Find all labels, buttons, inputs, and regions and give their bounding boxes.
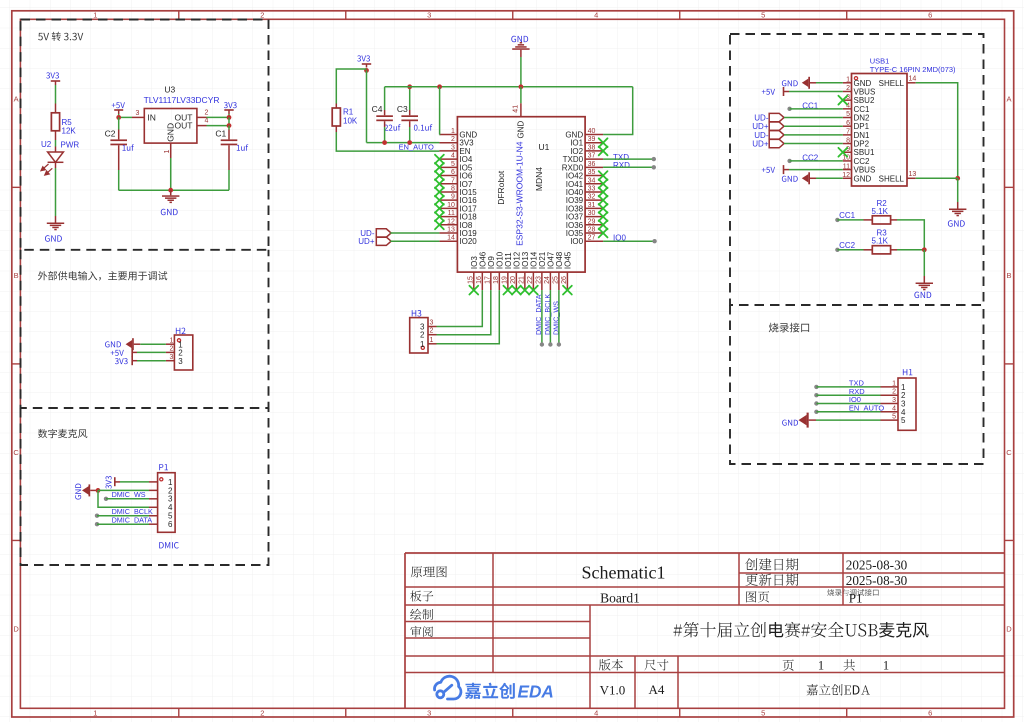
svg-text:11: 11 <box>843 163 850 170</box>
LED U2 designator <box>41 140 52 149</box>
U1 pin 41 (GND top) <box>513 103 526 138</box>
no-connect X USB1 pin9 (SBU1) <box>838 148 847 157</box>
U1 pin 24 (IO47) <box>544 251 556 290</box>
dashed box: programming header section <box>730 305 984 464</box>
U1 pin 26 (IO45) <box>561 251 573 290</box>
capacitor C3 <box>397 104 432 143</box>
wire SHELL14 to GND <box>916 83 958 178</box>
no-connect X U1 pin 38 <box>599 147 608 156</box>
svg-text:6: 6 <box>451 169 455 176</box>
svg-text:DP1: DP1 <box>854 122 870 131</box>
svg-text:4: 4 <box>451 153 455 160</box>
svg-text:20: 20 <box>510 276 517 284</box>
svg-text:30: 30 <box>588 210 596 217</box>
no-connect X U1 pin 33 <box>599 188 608 197</box>
svg-text:3: 3 <box>451 144 455 151</box>
node P1 GND junction <box>96 488 101 493</box>
U1 pin 15 (IO3) <box>467 256 479 290</box>
H3 pin 3 <box>420 320 436 332</box>
U1 pin 13 (IO19) <box>439 227 477 239</box>
port UD- (USB1 pin5) <box>754 113 784 122</box>
svg-text:13: 13 <box>447 227 455 234</box>
U1 pin 6 (IO6) <box>439 169 472 181</box>
no-connect X U1 pin 32 <box>599 196 608 205</box>
net label DMIC_BCLK (U1) <box>543 294 552 335</box>
wire 3V3 rail to U1 pin2 <box>367 142 440 144</box>
U1 pin 28 (IO35) <box>566 227 603 239</box>
svg-text:IO20: IO20 <box>459 237 477 246</box>
connector P1 <box>149 473 175 533</box>
net label CC1 (R2) <box>839 211 856 220</box>
net label IO0 (H1) <box>849 395 861 404</box>
power port 3V3 (U3 output) <box>224 102 237 114</box>
U1 pin 18 (IO10) <box>493 251 505 290</box>
svg-text:P1: P1 <box>849 590 863 605</box>
svg-text:28: 28 <box>588 227 596 234</box>
resistor R5 <box>51 104 76 141</box>
svg-text:A: A <box>1006 95 1011 104</box>
svg-text:SBU1: SBU1 <box>854 148 875 157</box>
svg-text:3: 3 <box>170 354 174 361</box>
no-connect X U1 pin 35 <box>599 171 608 180</box>
svg-text:6: 6 <box>928 708 932 717</box>
svg-text:SHELL: SHELL <box>879 174 905 183</box>
node GND rail branch to pin1 <box>437 84 442 89</box>
ground flag (H2 pin1) <box>105 338 140 350</box>
title block company 嘉立创EDA <box>807 684 870 695</box>
svg-text:6: 6 <box>928 11 932 20</box>
U1 pin 34 (IO41) <box>566 177 603 189</box>
U1 pin 20 (IO12) <box>510 251 522 290</box>
resistor R2 <box>864 199 898 224</box>
USB1 pin 5 (DN2) <box>843 111 870 122</box>
U3 pin 3 (IN) <box>132 110 144 117</box>
svg-text:1: 1 <box>451 128 455 135</box>
wire R3 to junction <box>897 249 924 251</box>
wire SHELL13 to GND <box>916 177 958 179</box>
wire C3 top to GND rail <box>409 87 411 110</box>
U1 pin 33 (IO40) <box>566 185 603 197</box>
connector USB1 designator <box>870 57 890 66</box>
U1 pin 38 (IO2) <box>570 144 603 156</box>
regulator U3 designator <box>164 85 175 95</box>
wire GND rail to U1 pin40 <box>603 87 633 135</box>
wire LED to GND <box>55 168 57 216</box>
capacitor C1 <box>215 126 248 191</box>
svg-text:19: 19 <box>501 276 508 284</box>
net label CC1 (USB1) <box>802 101 819 110</box>
title block project title <box>673 622 928 638</box>
U1 pin 1 (GND) <box>439 128 477 140</box>
svg-text:C1: C1 <box>215 129 226 139</box>
no-connect X U1 pin 31 <box>599 204 608 213</box>
svg-text:2025-08-30: 2025-08-30 <box>846 573 908 588</box>
wire GND to H2.1 <box>140 343 166 345</box>
no-connect X U1 pin 19 <box>503 286 512 295</box>
svg-text:TLV1117LV33DCYR: TLV1117LV33DCYR <box>144 95 220 105</box>
title block version V1.0 <box>600 683 626 698</box>
wire junction to ground <box>923 250 925 276</box>
svg-text:B: B <box>14 271 19 280</box>
dashed box: external power input section <box>21 250 269 408</box>
svg-text:EN_AUTO: EN_AUTO <box>399 143 434 152</box>
net label DMIC_WS (P1) <box>112 490 146 499</box>
wire CC1 <box>787 107 842 111</box>
wire UD- to U1.13 <box>390 232 439 234</box>
wire U1.16 to H3.3 <box>437 290 483 326</box>
svg-text:U3: U3 <box>164 85 175 95</box>
svg-text:5: 5 <box>761 708 765 717</box>
svg-text:5: 5 <box>892 414 896 421</box>
connector H2 <box>174 335 192 370</box>
svg-text:35: 35 <box>588 169 596 176</box>
wire C4 top to GND rail <box>384 87 386 110</box>
no-connect X U1 pin 39 <box>599 138 608 147</box>
wire +5V to U3.IN <box>119 114 132 117</box>
U1 pin 16 (IO46) <box>476 251 488 290</box>
USB1 pin 12 (GND) <box>842 172 871 183</box>
ground (top center) <box>511 36 529 57</box>
wire TXD to H1.1 <box>814 385 880 389</box>
ground flag (USB1 pin12) <box>782 172 816 184</box>
no-connect X U1 pin 20 <box>512 286 521 295</box>
title block label 绘制 <box>410 609 433 620</box>
svg-text:CC1: CC1 <box>839 211 856 220</box>
svg-text:GND: GND <box>517 120 526 138</box>
wire GND to USB1.1 <box>816 82 843 84</box>
section label burn interface <box>769 323 809 333</box>
wire U3.OUT2 to 3V3 <box>207 114 230 117</box>
H3 pin 2 <box>420 328 436 340</box>
svg-text:ESP32-S3-WROOM-1U-N4: ESP32-S3-WROOM-1U-N4 <box>514 141 524 246</box>
dashed box: digital microphone section <box>21 408 269 565</box>
svg-text:16: 16 <box>476 276 483 284</box>
svg-text:V1.0: V1.0 <box>600 683 626 698</box>
wire CC2 <box>787 159 842 163</box>
ground flag (USB1 pin1) <box>782 77 816 89</box>
no-connect X U1 pin 4 <box>435 155 444 164</box>
node 3V3/pin2 junction <box>227 115 232 120</box>
svg-text:C2: C2 <box>105 129 116 139</box>
net label CC2 (R3) <box>839 241 856 250</box>
title block label 原理图 <box>411 566 447 577</box>
svg-text:39: 39 <box>588 136 596 143</box>
title block label 版本 <box>599 659 623 670</box>
node C3/3V3 junction <box>407 140 412 145</box>
svg-text:8: 8 <box>846 137 850 144</box>
wire DMIC_DATA <box>95 522 149 526</box>
wire UD+ to USB1.8 <box>784 143 843 145</box>
USB1 pin 7 (DN1) <box>843 129 870 140</box>
resistor R3 <box>864 228 898 254</box>
title block label 图页 <box>746 591 769 602</box>
U1 pin 2 (3V3) <box>439 136 474 148</box>
ground (USB shell) <box>948 202 967 227</box>
USB1 pin 8 (DP2) <box>843 137 870 148</box>
wire DMIC_WS (U1.25) <box>557 290 561 347</box>
ground (below U3) <box>161 190 180 215</box>
no-connect X U1 pin 12 <box>435 220 444 229</box>
svg-text:DMIC_WS: DMIC_WS <box>112 490 146 499</box>
svg-text:2: 2 <box>260 11 264 20</box>
U3 pin 2 (OUT) <box>197 110 209 118</box>
power port +5V (H2 pin2) <box>111 348 137 357</box>
U1 pin 11 (IO18) <box>439 210 477 222</box>
svg-text:10K: 10K <box>343 117 358 126</box>
wire GND rail <box>385 86 633 88</box>
power port 3V3 (EN pullup) <box>357 55 371 67</box>
resistor R1 <box>332 104 358 133</box>
ground (CC pulldowns) <box>914 276 933 298</box>
port UD- (USB1 pin7) <box>754 131 784 140</box>
U1 label MDN4 <box>534 167 544 191</box>
svg-text:C4: C4 <box>372 104 383 114</box>
svg-text:EDA: EDA <box>518 681 554 701</box>
U1 pin 8 (IO15) <box>439 185 477 197</box>
svg-text:23: 23 <box>535 276 542 284</box>
wire GND symbol to rail <box>520 57 522 87</box>
wire U3.OUT4 to 3V3 <box>207 117 230 125</box>
wire RXD <box>603 165 656 169</box>
no-connect X U1 pin 7 <box>435 179 444 188</box>
title block value Board1 <box>600 591 640 606</box>
svg-text:5: 5 <box>451 161 455 168</box>
wire C2 bottom rail <box>119 189 229 191</box>
power port 3V3 (top of R5) <box>46 72 60 85</box>
svg-text:14: 14 <box>909 76 917 83</box>
power port +5V (USB1 pin11) <box>762 165 789 174</box>
wire CC2 to R3 <box>835 248 863 252</box>
no-connect X U1 pin 30 <box>599 212 608 221</box>
U1 pin 36 (RXD0) <box>562 161 603 173</box>
power port 3V3 (P1 pin1) <box>106 476 120 489</box>
title block label 创建日期 <box>745 558 798 570</box>
svg-text:38: 38 <box>588 144 596 151</box>
port UD+ (U1 pin14) <box>358 237 391 246</box>
USB1 pin 3 (SBU2) <box>843 94 875 105</box>
H2 pin 3 <box>166 354 183 366</box>
U1 pin 21 (IO13) <box>518 251 530 290</box>
U1 label DFRobot <box>496 170 506 205</box>
svg-text:VBUS: VBUS <box>854 87 876 96</box>
connector P1 designator <box>159 464 168 470</box>
P1 label DMIC <box>159 542 178 548</box>
wire +5V to USB1.11 <box>789 169 843 171</box>
no-connect X U1 pin 11 <box>435 212 444 221</box>
svg-text:1: 1 <box>170 337 174 344</box>
svg-text:2025-08-30: 2025-08-30 <box>846 557 908 572</box>
wire GND rail to U1 pin41 <box>520 87 522 103</box>
svg-text:DP2: DP2 <box>854 140 870 149</box>
wire CC1 to R2 <box>835 218 863 222</box>
no-connect X U1 pin 28 <box>599 229 608 238</box>
wire R2 to junction <box>897 220 924 250</box>
op-amp U3 body <box>144 109 197 144</box>
wire GND to P1.4 <box>98 490 149 507</box>
svg-text:14: 14 <box>447 235 455 242</box>
H2 pin 1 <box>166 337 183 349</box>
net label DMIC_DATA (P1) <box>112 516 153 525</box>
svg-text:34: 34 <box>588 177 596 184</box>
svg-text:13: 13 <box>909 171 917 178</box>
USB1 pin 11 (VBUS) <box>843 163 876 174</box>
U1 pin 7 (IO7) <box>439 177 472 189</box>
svg-text:2: 2 <box>892 389 896 396</box>
svg-text:CC1: CC1 <box>854 105 871 114</box>
U1 pin 14 (IO20) <box>439 235 477 247</box>
svg-text:1: 1 <box>846 77 850 84</box>
svg-text:27: 27 <box>588 235 596 242</box>
USB1 pin 6 (DP1) <box>843 120 870 131</box>
net label DMIC_BCLK (P1) <box>112 507 153 516</box>
wire IO0 <box>603 239 657 243</box>
U1 pin 17 (IO9) <box>484 256 496 290</box>
U1 pin 30 (IO37) <box>566 210 603 222</box>
net label DMIC_DATA (U1) <box>534 294 543 335</box>
svg-text:5: 5 <box>901 416 906 425</box>
wire 3V3 to R5 <box>55 85 57 104</box>
svg-text:3: 3 <box>136 110 140 117</box>
svg-text:12: 12 <box>447 218 455 225</box>
svg-text:7: 7 <box>451 177 455 184</box>
svg-text:12K: 12K <box>62 127 77 136</box>
U3 pin 1 (GND) <box>164 143 171 158</box>
power port +5V (USB1 pin2) <box>762 87 789 96</box>
U1 pin 5 (IO5) <box>439 161 472 173</box>
node +5V/C2 junction <box>116 115 121 120</box>
U1 pin 31 (IO38) <box>566 202 603 214</box>
USB1 pin 4 (CC1) <box>843 103 870 114</box>
svg-text:1: 1 <box>892 380 896 387</box>
title block value P1 <box>849 590 863 605</box>
svg-text:2: 2 <box>170 346 174 353</box>
node C3/GND rail junction <box>407 84 412 89</box>
svg-text:9: 9 <box>451 194 455 201</box>
U1 designator <box>539 142 550 152</box>
node 3V3/pin4 junction <box>227 123 232 128</box>
H3 pin 1 <box>420 337 436 349</box>
svg-text:25: 25 <box>552 276 559 284</box>
wire R1 to EN (EN_AUTO) <box>336 132 439 151</box>
U1 pin 35 (IO42) <box>566 169 603 181</box>
U1 pin 39 (IO1) <box>570 136 603 148</box>
connector H2 designator <box>176 328 186 334</box>
section label external power <box>38 271 167 281</box>
no-connect X U1 pin 6 <box>435 171 444 180</box>
svg-text:17: 17 <box>484 276 491 284</box>
svg-text:1: 1 <box>883 659 889 673</box>
U1 pin 23 (IO21) <box>535 251 547 290</box>
svg-text:5: 5 <box>846 111 850 118</box>
net label RXD (H1) <box>849 387 865 396</box>
title block label 尺寸 <box>644 659 668 670</box>
svg-text:3: 3 <box>427 11 431 20</box>
port UD+ (USB1 pin8) <box>752 139 784 148</box>
svg-text:IO0: IO0 <box>570 237 583 246</box>
svg-text:3: 3 <box>178 357 183 366</box>
no-connect X U1 pin 8 <box>435 188 444 197</box>
svg-text:4: 4 <box>594 708 598 717</box>
U1 pin 3 (EN) <box>439 144 470 156</box>
svg-text:2: 2 <box>430 328 434 335</box>
wire +5V to USB1.2 <box>789 90 843 92</box>
section label digital mic <box>38 429 87 438</box>
U1 pin 40 (GND) <box>565 128 603 140</box>
wire 3V3 down to rail <box>366 70 368 142</box>
node C4/3V3 junction <box>382 140 387 145</box>
ground flag (P1 pin2) <box>75 484 98 500</box>
svg-text:8: 8 <box>451 185 455 192</box>
wire GND to H1.5 <box>816 419 881 421</box>
net label TXD (H1) <box>849 379 865 388</box>
no-connect X U1 pin 34 <box>599 179 608 188</box>
connector H1 <box>881 378 917 430</box>
U3 pin 4 (OUT) <box>197 118 209 126</box>
svg-text:OUT: OUT <box>175 121 193 131</box>
wire GND to USB1.12 <box>816 177 843 179</box>
wire IO0 to H1.3 <box>814 401 880 405</box>
svg-text:R1: R1 <box>343 108 354 117</box>
title block page ref 烧录与调试接口 <box>827 589 878 596</box>
svg-text:B: B <box>1006 271 1011 280</box>
no-connect X U1 pin 21 <box>520 286 529 295</box>
wire UD- to USB1.7 <box>784 134 843 136</box>
USB1 pin 13 (SHELL) <box>879 171 917 183</box>
svg-text:SHELL: SHELL <box>879 79 905 88</box>
title block grid <box>405 553 1005 708</box>
svg-text:DMIC_DATA: DMIC_DATA <box>112 516 153 525</box>
svg-text:U1: U1 <box>539 142 550 152</box>
svg-text:DFRobot: DFRobot <box>496 170 506 205</box>
svg-text:CC2: CC2 <box>854 157 871 166</box>
svg-text:Board1: Board1 <box>600 591 640 606</box>
svg-text:32: 32 <box>588 194 596 201</box>
svg-text:DN1: DN1 <box>854 131 871 140</box>
no-connect X U1 pin 22 <box>529 286 538 295</box>
svg-text:MDN4: MDN4 <box>534 167 544 191</box>
connector H1 designator <box>903 369 913 375</box>
svg-text:D: D <box>1006 624 1012 633</box>
svg-text:D: D <box>13 624 19 633</box>
svg-text:6: 6 <box>168 520 173 529</box>
capacitor C2 <box>105 117 134 190</box>
dashed box: 5V to 3.3V section <box>21 20 269 250</box>
wire GND to P1.2 <box>98 489 149 491</box>
LED U2 net label PWR <box>61 141 80 150</box>
wire DMIC_BCLK <box>95 514 149 518</box>
svg-text:21: 21 <box>518 276 525 284</box>
svg-text:GND: GND <box>166 123 176 142</box>
no-connect X U1 pin 5 <box>435 163 444 172</box>
U1 pin 12 (IO8) <box>439 218 472 230</box>
svg-text:IN: IN <box>147 113 156 123</box>
ground (below U2) <box>45 216 64 242</box>
svg-text:VBUS: VBUS <box>854 166 876 175</box>
svg-text:3: 3 <box>430 320 434 327</box>
net label TXD (U1) <box>613 153 629 162</box>
svg-text:7: 7 <box>846 129 850 136</box>
U1 pin 27 (IO0) <box>570 235 603 247</box>
svg-text:UD+: UD+ <box>752 122 769 131</box>
USB1 part number <box>870 65 956 74</box>
dashed box: USB section <box>730 34 984 305</box>
USB1 pin 14 (SHELL) <box>879 76 917 88</box>
svg-text:6: 6 <box>846 120 850 127</box>
svg-text:C: C <box>1006 448 1012 457</box>
port UD- (U1 pin13) <box>360 229 391 238</box>
svg-text:1: 1 <box>430 337 434 344</box>
title block label 板子 <box>410 591 433 602</box>
